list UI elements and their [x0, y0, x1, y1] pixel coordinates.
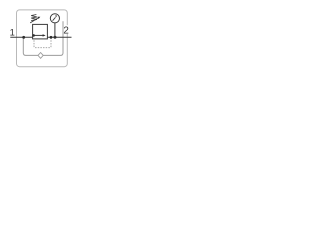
label 2 white backing: [64, 25, 70, 34]
gauge stem: [54, 23, 56, 37]
dashed pilot line: [34, 38, 51, 48]
gauge needle: [53, 17, 56, 20]
flow path inside box: [33, 34, 44, 36]
pneumatic pressure regulator schematic: [0, 0, 79, 75]
regulator box: [33, 24, 48, 39]
flow arrowhead: [43, 34, 46, 36]
svg-text:1: 1: [10, 27, 15, 38]
pilot bypass path (gray, left-down-right-up): [23, 21, 63, 55]
junction dot left: [22, 36, 25, 39]
main line right (port 2): [47, 36, 71, 38]
gauge needle head: [55, 15, 57, 17]
flow inlet dot: [32, 34, 35, 37]
check valve diamond: [38, 53, 43, 59]
svg-text:2: 2: [63, 25, 68, 36]
main line left (port 1): [10, 36, 33, 38]
enclosure frame: [17, 10, 68, 67]
background: [0, 0, 79, 75]
junction dot gauge: [54, 36, 57, 39]
junction dot pilot: [50, 36, 53, 39]
gauge circle: [50, 14, 59, 23]
adjustment arrowhead: [38, 17, 41, 19]
spring: [31, 15, 37, 21]
adjustment arrow: [30, 18, 38, 23]
